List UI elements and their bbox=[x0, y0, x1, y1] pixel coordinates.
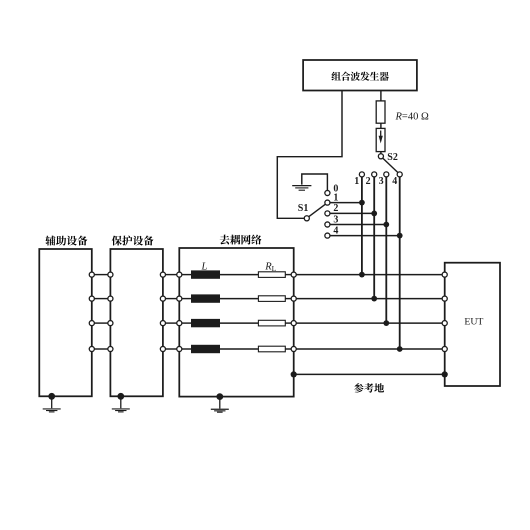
inductor L line 3 bbox=[192, 319, 220, 326]
junction dot line 3 at node 3 bbox=[383, 320, 389, 326]
wire resistor RL to decoupling terminal line 3 bbox=[285, 322, 291, 324]
junction dot node 1 upper bbox=[359, 200, 365, 206]
terminal protection right line 1 bbox=[160, 272, 165, 277]
resistor R=40 Ω (rect) bbox=[376, 101, 385, 123]
terminal aux right line 3 bbox=[89, 321, 94, 326]
S2 contact 3 terminal bbox=[384, 172, 389, 177]
junction dot line 4 at node 4 bbox=[397, 346, 403, 352]
wire from S2 contact 2 down to line 2 bbox=[373, 177, 375, 299]
wire resistor RL to decoupling terminal line 4 bbox=[285, 348, 291, 350]
svg-text:S1: S1 bbox=[298, 203, 309, 214]
terminal aux right line 2 bbox=[89, 296, 94, 301]
EUT box bbox=[445, 263, 500, 386]
svg-text:3: 3 bbox=[333, 214, 338, 225]
wire protection-to-decoupling line 4 bbox=[165, 348, 176, 350]
terminal protection left line 3 bbox=[108, 321, 113, 326]
resistor RL line 3 bbox=[258, 320, 285, 326]
wire decoupling-to-EUT line 3 bbox=[296, 322, 442, 324]
wire decoupling terminal to inductor line 1 bbox=[182, 274, 192, 276]
wire from S1 contact 1 to node 1 bbox=[330, 202, 362, 204]
svg-text:1: 1 bbox=[354, 176, 359, 187]
junction dot node 4 upper bbox=[397, 233, 403, 239]
terminal decoupling left line 4 bbox=[177, 346, 182, 351]
terminal protection right line 2 bbox=[160, 296, 165, 301]
terminal decoupling left line 3 bbox=[177, 321, 182, 326]
svg-text:S2: S2 bbox=[387, 152, 398, 163]
ground dot auxiliary box bbox=[48, 393, 55, 400]
switch S1 pivot bbox=[304, 216, 309, 221]
terminal protection left line 4 bbox=[108, 346, 113, 351]
wire aux-to-protection line 1 bbox=[94, 274, 108, 276]
terminal decoupling left line 2 bbox=[177, 296, 182, 301]
wire decoupling terminal to inductor line 2 bbox=[182, 298, 192, 300]
combination wave generator box (组合波发生器) bbox=[303, 60, 417, 91]
terminal protection left line 1 bbox=[108, 272, 113, 277]
svg-text:3: 3 bbox=[379, 176, 384, 187]
wire from generator right output to resistor R bbox=[380, 91, 382, 101]
terminal protection left line 2 bbox=[108, 296, 113, 301]
wire from S1 contact 4 to node 4 bbox=[330, 235, 400, 237]
junction dot ref-ground at EUT box bbox=[442, 371, 448, 377]
terminal EUT line 4 bbox=[442, 346, 447, 351]
ground dot decoupling box bbox=[216, 393, 223, 400]
S2 contact 1 terminal bbox=[359, 172, 364, 177]
inductor L line 2 bbox=[192, 295, 220, 302]
terminal protection right line 3 bbox=[160, 321, 165, 326]
svg-text:R=40 Ω: R=40 Ω bbox=[395, 112, 429, 123]
wire protection-to-decoupling line 1 bbox=[165, 274, 176, 276]
wire decoupling-to-EUT line 2 bbox=[296, 298, 442, 300]
terminal decoupling right line 1 bbox=[291, 272, 296, 277]
wire protection-to-decoupling line 3 bbox=[165, 322, 176, 324]
wire decoupling-to-EUT line 1 bbox=[296, 274, 442, 276]
S1 contact 1 terminal bbox=[325, 200, 330, 205]
terminal decoupling right line 3 bbox=[291, 321, 296, 326]
wire between R and arrow element bbox=[380, 123, 382, 128]
wire inductor to resistor RL line 4 bbox=[220, 348, 259, 350]
wire from S1 contact 3 to node 3 bbox=[330, 224, 386, 226]
svg-text:4: 4 bbox=[392, 176, 397, 187]
wire from S1 contact 2 to node 2 bbox=[330, 212, 374, 214]
arrow element below R (rect with down arrow) bbox=[376, 128, 385, 151]
resistor RL line 2 bbox=[258, 296, 285, 302]
ground symbol decoupling box bbox=[211, 397, 229, 413]
wire resistor RL to decoupling terminal line 1 bbox=[285, 274, 291, 276]
switch S1 blade to contact 1 bbox=[309, 204, 326, 217]
wire inductor to resistor RL line 3 bbox=[220, 322, 259, 324]
ground symbol protection box bbox=[112, 396, 130, 412]
S1 contact 3 terminal bbox=[325, 222, 330, 227]
junction dot line 1 at node 1 bbox=[359, 272, 365, 278]
wire from generator left output to switch S1 pivot bbox=[277, 91, 342, 219]
ground symbol auxiliary box bbox=[43, 396, 61, 412]
svg-text:2: 2 bbox=[366, 176, 371, 187]
wire inductor to resistor RL line 1 bbox=[220, 274, 259, 276]
wire decoupling terminal to inductor line 4 bbox=[182, 348, 192, 350]
S1 contact 4 terminal bbox=[325, 233, 330, 238]
svg-text:RL: RL bbox=[264, 261, 276, 273]
terminal decoupling left line 1 bbox=[177, 272, 182, 277]
S1 contact 0 terminal bbox=[325, 190, 330, 195]
junction dot node 3 upper bbox=[383, 222, 389, 228]
inductor L line 4 bbox=[192, 345, 220, 352]
decoupling network box (去耦网络) bbox=[179, 235, 293, 397]
wire aux-to-protection line 3 bbox=[94, 322, 108, 324]
wire from S2 contact 3 down to line 3 bbox=[385, 177, 387, 323]
switch S2 pivot bbox=[378, 154, 383, 159]
terminal EUT line 2 bbox=[442, 296, 447, 301]
wire from S2 contact 1 down to line 1 bbox=[361, 177, 363, 275]
svg-text:2: 2 bbox=[333, 203, 338, 214]
resistor RL line 4 bbox=[258, 346, 285, 352]
wire aux-to-protection line 2 bbox=[94, 298, 108, 300]
terminal aux right line 4 bbox=[89, 346, 94, 351]
wire inductor to resistor RL line 2 bbox=[220, 298, 259, 300]
wire decoupling terminal to inductor line 3 bbox=[182, 322, 192, 324]
wire resistor RL to decoupling terminal line 2 bbox=[285, 298, 291, 300]
svg-text:EUT: EUT bbox=[464, 317, 483, 328]
S1 contact 2 terminal bbox=[325, 211, 330, 216]
wire from arrow element to S2 pivot bbox=[380, 152, 382, 154]
auxiliary equipment box (辅助设备) bbox=[39, 236, 92, 397]
wire decoupling-to-EUT line 4 bbox=[296, 348, 442, 350]
switch S2 blade to contact 4 bbox=[383, 158, 399, 173]
protection equipment box (保护设备) bbox=[110, 236, 162, 397]
inductor L line 1 bbox=[192, 271, 220, 278]
S2 contact 2 terminal bbox=[372, 172, 377, 177]
ground dot protection box bbox=[117, 393, 124, 400]
svg-text:4: 4 bbox=[333, 225, 338, 236]
terminal protection right line 4 bbox=[160, 346, 165, 351]
terminal decoupling right line 2 bbox=[291, 296, 296, 301]
junction dot node 2 upper bbox=[371, 211, 377, 217]
S2 contact 4 terminal bbox=[397, 172, 402, 177]
terminal EUT line 1 bbox=[442, 272, 447, 277]
terminal decoupling right line 4 bbox=[291, 346, 296, 351]
wire protection-to-decoupling line 2 bbox=[165, 298, 176, 300]
terminal aux right line 1 bbox=[89, 272, 94, 277]
junction dot line 2 at node 2 bbox=[371, 296, 377, 302]
wire from S2 contact 4 down to line 4 bbox=[399, 177, 401, 349]
reference ground wire (参考地) bbox=[294, 373, 445, 375]
terminal EUT line 3 bbox=[442, 321, 447, 326]
junction dot ref-ground at decoupling box bbox=[291, 371, 297, 377]
wire aux-to-protection line 4 bbox=[94, 348, 108, 350]
label 参考地 bbox=[354, 383, 384, 393]
ground symbol for S1 contact 0 bbox=[292, 174, 327, 190]
resistor RL line 1 bbox=[258, 272, 285, 278]
